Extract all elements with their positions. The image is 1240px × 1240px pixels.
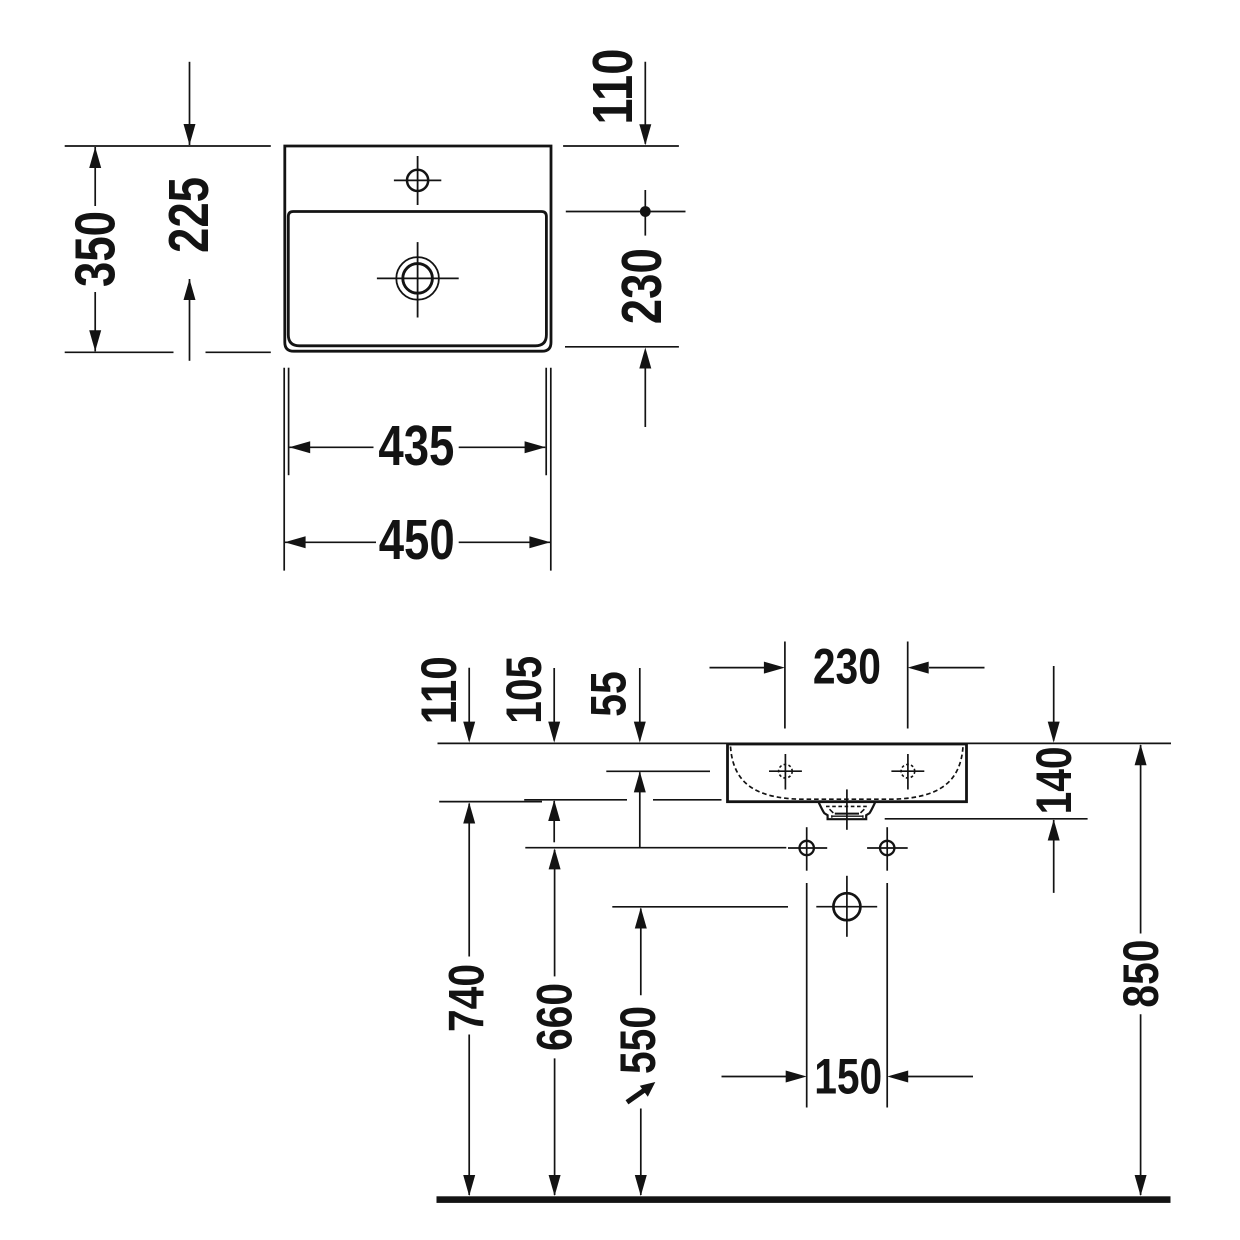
svg-text:550: 550 [609,1006,666,1074]
svg-text:55: 55 [580,671,637,717]
svg-text:140: 140 [1025,746,1082,814]
svg-text:850: 850 [1112,940,1169,1008]
svg-text:740: 740 [438,964,495,1032]
svg-text:435: 435 [378,414,454,477]
svg-text:660: 660 [526,983,583,1051]
svg-text:350: 350 [64,211,127,287]
svg-text:110: 110 [581,49,644,125]
svg-text:230: 230 [813,638,881,695]
svg-text:110: 110 [410,656,467,724]
svg-text:450: 450 [379,508,455,571]
svg-text:230: 230 [610,248,673,324]
svg-text:105: 105 [495,656,552,724]
svg-text:150: 150 [814,1047,882,1104]
svg-text:225: 225 [157,177,220,253]
